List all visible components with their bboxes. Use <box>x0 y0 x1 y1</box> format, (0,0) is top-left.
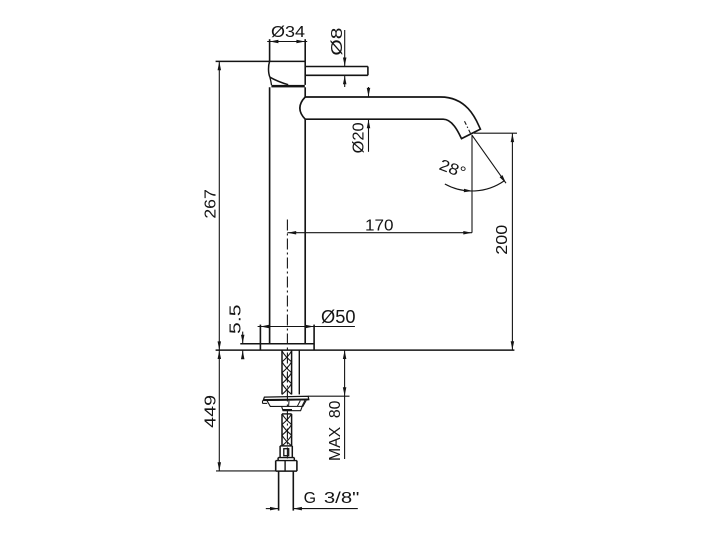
svg-text:5.5: 5.5 <box>227 304 244 334</box>
svg-text:Ø34: Ø34 <box>271 24 305 41</box>
svg-text:28°: 28° <box>437 157 468 182</box>
svg-text:Ø8: Ø8 <box>329 27 346 55</box>
svg-text:267: 267 <box>202 189 219 219</box>
svg-text:200: 200 <box>494 225 511 255</box>
svg-text:Ø50: Ø50 <box>321 307 356 327</box>
svg-text:MAX 80: MAX 80 <box>327 400 344 461</box>
svg-text:170: 170 <box>365 217 394 234</box>
svg-text:3/8": 3/8" <box>324 490 360 507</box>
svg-text:449: 449 <box>202 395 219 428</box>
svg-text:Ø20: Ø20 <box>350 122 367 153</box>
svg-text:G: G <box>304 490 316 507</box>
